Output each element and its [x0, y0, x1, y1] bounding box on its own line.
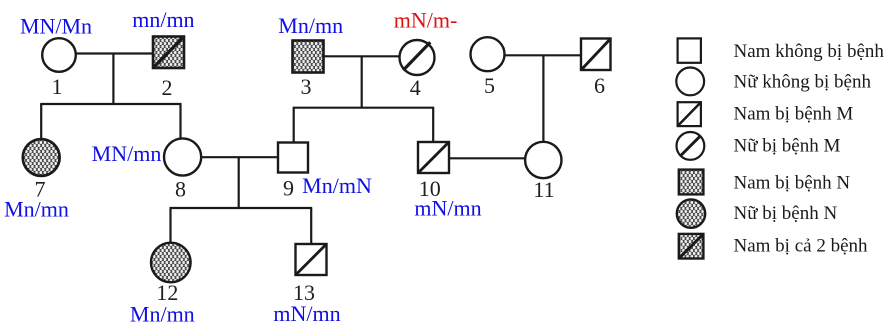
svg-text:Nữ bị bệnh M: Nữ bị bệnh M: [734, 136, 841, 157]
svg-text:Nữ bị bệnh N: Nữ bị bệnh N: [734, 203, 838, 224]
legend symbol circle disease M female: [677, 132, 705, 160]
svg-text:Nam bị bệnh N: Nam bị bệnh N: [734, 173, 851, 194]
legend symbol circle disease N female (stippled): [677, 199, 705, 227]
square person 6 (male disease M, slash): [581, 39, 611, 71]
svg-text:11: 11: [533, 177, 554, 202]
circle person 1 (female unaffected): [42, 38, 76, 72]
wire sibship line children of 1-2: [40, 103, 181, 105]
svg-text:mn/mn: mn/mn: [132, 7, 194, 32]
square person 3 (male disease N, stippled): [293, 41, 324, 73]
circle person 4 (female disease M, slash): [400, 40, 435, 75]
svg-text:Nam bị bệnh M: Nam bị bệnh M: [734, 104, 854, 125]
square person 9 (male unaffected): [278, 143, 308, 173]
svg-text:2: 2: [162, 75, 173, 100]
circle person 11 (female unaffected): [525, 142, 561, 178]
wire sibship line children of 3-4: [293, 107, 435, 109]
legend symbol square both diseases male (stippled + slash): [679, 234, 704, 259]
svg-text:Nữ không bị bệnh: Nữ không bị bệnh: [734, 72, 872, 93]
wire drop to square 13: [310, 208, 312, 245]
svg-text:Nam không bị bệnh: Nam không bị bệnh: [734, 41, 885, 62]
wire drop to circle 11: [542, 55, 544, 141]
wire drop to circle 7: [40, 104, 42, 140]
square person 13 (male disease M, slash): [296, 244, 327, 275]
svg-text:8: 8: [175, 177, 186, 202]
svg-text:9: 9: [283, 176, 294, 201]
legend symbol square disease N male (stippled): [679, 170, 704, 195]
svg-text:3: 3: [301, 74, 312, 99]
circle person 7 (female disease N, stippled): [23, 139, 60, 176]
circle person 5 (female unaffected): [471, 37, 505, 71]
wire drop to circle 8: [179, 104, 181, 140]
svg-text:mN/mn: mN/mn: [414, 196, 481, 221]
svg-text:6: 6: [594, 73, 605, 98]
wire drop from couple 3-4: [361, 56, 363, 107]
legend symbol circle unaffected female: [676, 68, 704, 96]
svg-text:MN/Mn: MN/Mn: [20, 14, 92, 39]
svg-text:Mn/mN: Mn/mN: [302, 173, 372, 198]
wire drop to circle 12: [169, 208, 171, 244]
legend symbol square disease M male: [678, 102, 701, 126]
wire drop to square 10: [432, 108, 434, 143]
wire marriage 1-2: [76, 52, 153, 54]
svg-text:4: 4: [410, 75, 421, 100]
wire drop from couple 8-9: [238, 157, 240, 208]
wire marriage 5-6: [505, 54, 582, 56]
wire drop from couple 1-2: [112, 54, 114, 105]
svg-text:1: 1: [52, 74, 63, 99]
svg-text:5: 5: [484, 73, 495, 98]
svg-text:Mn/mn: Mn/mn: [4, 197, 69, 222]
legend symbol square unaffected male: [678, 38, 701, 62]
svg-text:Mn/mn: Mn/mn: [130, 302, 195, 327]
circle person 12 (female disease N, stippled): [151, 243, 191, 283]
wire marriage 10-11: [449, 157, 525, 159]
square person 10 (male disease M, slash): [418, 142, 449, 173]
square person 2 (male both diseases, stippled + slash): [153, 37, 184, 69]
wire marriage 8-9: [201, 156, 278, 158]
svg-text:Nam bị cả 2 bệnh: Nam bị cả 2 bệnh: [734, 236, 869, 257]
wire marriage 3-4: [324, 55, 401, 57]
svg-text:MN/mn: MN/mn: [92, 141, 162, 166]
wire drop to square 9: [293, 108, 295, 143]
svg-text:Mn/mn: Mn/mn: [278, 13, 343, 38]
svg-text:mN/m-: mN/m-: [394, 8, 458, 33]
svg-text:mN/mn: mN/mn: [273, 301, 340, 326]
wire sibship line children of 8-9: [170, 207, 313, 209]
circle person 8 (female unaffected): [164, 138, 201, 175]
